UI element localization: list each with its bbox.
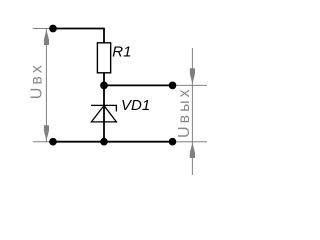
- svg-text:R1: R1: [112, 44, 131, 61]
- dimension line Uvyh: [191, 48, 193, 175]
- svg-text:VD1: VD1: [121, 97, 150, 114]
- dimension arrow down (Uvyh top, above wire): [190, 68, 195, 84]
- junction node: middle (resistor/diode): [100, 82, 108, 90]
- dimension extension tick, right top: [177, 84, 208, 86]
- zener diode VD1: anode triangle: [91, 106, 116, 122]
- resistor R1 body: [97, 43, 110, 73]
- dimension line Uvx: [45, 29, 47, 142]
- svg-text:Uвых: Uвых: [176, 86, 193, 138]
- junction node: bottom center: [100, 138, 108, 146]
- wire: bottom rail: [53, 141, 173, 143]
- junction node: bottom right: [169, 138, 177, 146]
- dimension arrow down (Uvx bottom): [44, 125, 49, 141]
- wire: middle rail: [104, 84, 173, 86]
- dimension arrow up (Uvyh bottom, below wire): [190, 143, 195, 158]
- wire: through diode branch: [103, 85, 105, 141]
- dimension extension tick, left top: [33, 28, 59, 30]
- wire: down to resistor: [103, 28, 105, 43]
- zener diode VD1: cathode bar with hook: [91, 105, 116, 111]
- wire: resistor to middle node: [103, 73, 105, 86]
- junction node: middle right: [169, 82, 177, 90]
- svg-text:Uвх: Uвх: [29, 62, 46, 99]
- dimension extension tick, right bottom: [177, 141, 208, 143]
- junction node: top left: [49, 25, 57, 33]
- wire: top rail: [53, 28, 104, 30]
- dimension extension tick, left bottom: [33, 141, 59, 143]
- junction node: bottom left: [49, 138, 57, 146]
- dimension arrow up (Uvx top): [44, 30, 49, 45]
